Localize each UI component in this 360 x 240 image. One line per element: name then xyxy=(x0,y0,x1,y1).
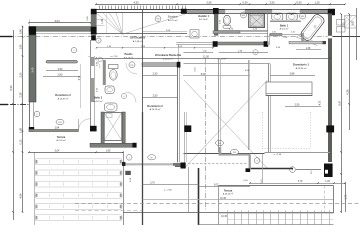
svg-text:P06: P06 xyxy=(218,143,221,145)
svg-text:1,95: 1,95 xyxy=(106,150,111,153)
svg-text:A:1,49 m²: A:1,49 m² xyxy=(133,40,143,43)
svg-text:WB1: WB1 xyxy=(242,15,246,17)
svg-text:P08: P08 xyxy=(58,122,61,124)
svg-text:3,04: 3,04 xyxy=(54,19,60,23)
svg-text:2,56: 2,56 xyxy=(206,0,212,4)
svg-text:A:13,87 m²: A:13,87 m² xyxy=(58,97,69,100)
svg-text:0,70: 0,70 xyxy=(272,32,276,34)
svg-text:2,10: 2,10 xyxy=(291,32,295,34)
svg-text:A:2,56 m²: A:2,56 m² xyxy=(199,18,208,21)
svg-text:S05: S05 xyxy=(156,19,159,21)
svg-text:A:18,26 m²: A:18,26 m² xyxy=(223,192,233,195)
svg-text:A:4,20 m²: A:4,20 m² xyxy=(280,27,289,30)
svg-text:3,70: 3,70 xyxy=(298,181,303,183)
svg-text:1,90: 1,90 xyxy=(20,44,23,49)
svg-text:Dormitorio 2: Dormitorio 2 xyxy=(147,104,163,108)
svg-text:2,50: 2,50 xyxy=(295,104,300,107)
svg-text:A:3,70 m²: A:3,70 m² xyxy=(168,19,178,22)
svg-text:A:4,28 m²: A:4,28 m² xyxy=(124,56,133,59)
svg-text:6,30: 6,30 xyxy=(9,85,13,91)
svg-text:0,50: 0,50 xyxy=(296,0,302,4)
svg-text:1,43: 1,43 xyxy=(20,127,23,132)
svg-text:0,30: 0,30 xyxy=(242,0,248,4)
svg-text:11,50: 11,50 xyxy=(203,56,209,59)
svg-text:4,30: 4,30 xyxy=(133,0,139,4)
svg-text:WB1: WB1 xyxy=(301,16,305,18)
svg-text:1,45: 1,45 xyxy=(325,181,330,183)
svg-text:2,84: 2,84 xyxy=(55,127,60,129)
svg-text:0,10: 0,10 xyxy=(20,139,23,144)
svg-text:A:28,81 m²: A:28,81 m² xyxy=(163,58,173,61)
svg-text:1,00: 1,00 xyxy=(101,19,104,24)
svg-text:6,36: 6,36 xyxy=(346,89,349,94)
svg-text:A:2,05 m²: A:2,05 m² xyxy=(56,139,65,142)
svg-text:Baño 1: Baño 1 xyxy=(280,24,289,27)
svg-text:0,60: 0,60 xyxy=(20,28,23,33)
svg-text:2,80: 2,80 xyxy=(58,73,63,76)
svg-text:▸ +7,36: ▸ +7,36 xyxy=(111,55,119,58)
svg-text:Dormitorio 3: Dormitorio 3 xyxy=(55,93,71,97)
svg-text:Escalera: Escalera xyxy=(168,16,178,19)
svg-text:3,50: 3,50 xyxy=(20,72,23,77)
svg-text:3,88: 3,88 xyxy=(290,73,295,76)
svg-text:2,50: 2,50 xyxy=(269,0,275,4)
svg-text:▸ +7,36: ▸ +7,36 xyxy=(274,153,282,156)
svg-text:Baño 2: Baño 2 xyxy=(94,97,103,100)
svg-text:6,47: 6,47 xyxy=(338,100,341,105)
svg-text:A:4,32 m²: A:4,32 m² xyxy=(93,100,102,103)
svg-text:4,94: 4,94 xyxy=(20,193,23,198)
svg-text:▸ +7,36: ▸ +7,36 xyxy=(164,189,172,192)
svg-text:4,30: 4,30 xyxy=(320,100,322,105)
svg-text:A:25,93 m²: A:25,93 m² xyxy=(296,67,307,70)
svg-text:Pasillo: Pasillo xyxy=(124,53,133,56)
svg-text:5,40: 5,40 xyxy=(31,67,34,72)
svg-text:0,10: 0,10 xyxy=(311,171,313,175)
svg-text:Ob Escalera: Ob Escalera xyxy=(130,36,146,40)
svg-text:P05: P05 xyxy=(233,152,236,154)
svg-text:2,38: 2,38 xyxy=(20,92,23,97)
svg-text:Dormitorio 1: Dormitorio 1 xyxy=(293,63,309,67)
svg-text:1,25: 1,25 xyxy=(314,0,320,4)
svg-text:Vestidor 1: Vestidor 1 xyxy=(198,15,210,18)
svg-text:A:7,43 m²: A:7,43 m² xyxy=(218,57,227,60)
svg-text:2,70: 2,70 xyxy=(150,182,155,184)
svg-text:A:10,28 m²: A:10,28 m² xyxy=(150,108,161,111)
svg-text:Terraza: Terraza xyxy=(57,136,66,139)
svg-text:10,45: 10,45 xyxy=(221,216,227,218)
svg-text:2,50: 2,50 xyxy=(58,68,63,71)
svg-text:3,04: 3,04 xyxy=(55,150,60,153)
svg-text:PW: PW xyxy=(131,65,134,67)
svg-text:Terraza: Terraza xyxy=(224,189,233,192)
svg-text:#Circulante Planta Alta: #Circulante Planta Alta xyxy=(155,54,182,57)
